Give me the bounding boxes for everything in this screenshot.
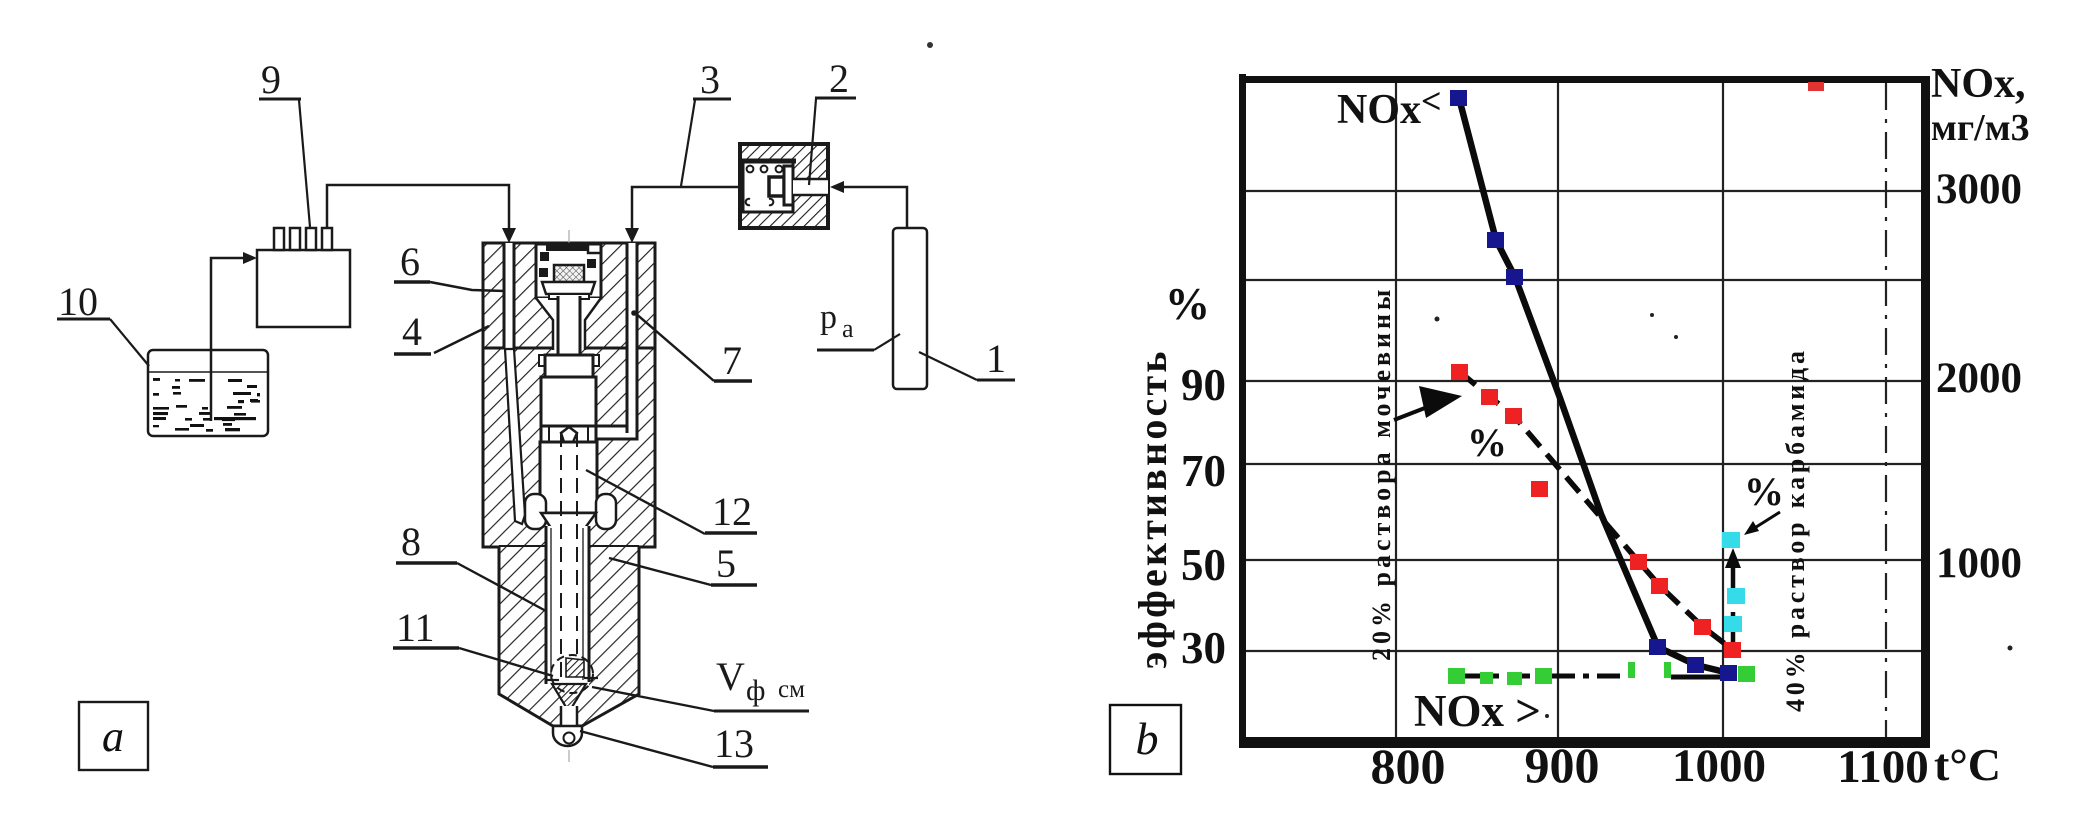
- solenoid bolt 3: [539, 268, 548, 277]
- svg-text:20% раствора мочевины: 20% раствора мочевины: [1367, 286, 1396, 661]
- svg-text:ф: ф: [746, 674, 765, 707]
- valve 2 bottom marks: [746, 199, 774, 205]
- nozzle nub: [553, 726, 582, 746]
- arrow into unit 9: [243, 252, 257, 264]
- green squares: [1448, 662, 1755, 685]
- svg-text:a: a: [842, 314, 854, 343]
- svg-text:11: 11: [396, 605, 435, 650]
- plot border left: [1239, 74, 1246, 748]
- label 6: [400, 239, 420, 284]
- svg-text:90: 90: [1181, 360, 1226, 410]
- panel letter a box: [79, 702, 148, 770]
- svg-text:13: 13: [714, 721, 754, 766]
- unit 9 pin 2: [290, 228, 300, 250]
- funnel below cavity: [536, 298, 601, 350]
- curve efficiency dashed: [1460, 372, 1733, 650]
- mixing volume dashed ellipse: [551, 655, 593, 693]
- leader 11: [459, 648, 553, 676]
- valve 2 top bar: [743, 159, 796, 164]
- valve 2 chamber: [743, 160, 793, 212]
- leader 10: [110, 319, 149, 366]
- tank 10: [148, 350, 268, 436]
- svg-text:12: 12: [712, 489, 752, 534]
- label 9: [261, 57, 281, 102]
- svg-text:10: 10: [58, 279, 98, 324]
- wire cylinder to valve 2: [836, 187, 907, 228]
- leader 3: [681, 100, 695, 186]
- svg-text:8: 8: [401, 519, 421, 564]
- urea label arrow: [1394, 406, 1430, 420]
- cyan squares: [1722, 532, 1745, 632]
- leader 2: [809, 99, 816, 185]
- solenoid top bar: [546, 245, 588, 251]
- leader 6: [430, 282, 505, 291]
- pipe tank to unit 9: [211, 258, 245, 421]
- valve 2 outlet port: [793, 179, 828, 195]
- svg-text:1000: 1000: [1936, 540, 2022, 587]
- right channel elbow: [597, 426, 637, 439]
- valve 2 port circles: [747, 166, 754, 173]
- label 11: [396, 605, 435, 650]
- grid horizontal 2500: [1246, 279, 1921, 281]
- svg-text:эффективность: эффективность: [1130, 348, 1175, 669]
- valve ball pentagon: [561, 427, 577, 442]
- svg-text:NOx >: NOx >: [1414, 686, 1541, 736]
- leader 4: [434, 326, 489, 353]
- grid horizontal 70: [1246, 463, 1921, 465]
- label 12: [712, 489, 752, 534]
- electronic unit 9 box: [257, 250, 350, 327]
- leader 13: [580, 731, 713, 767]
- svg-text:3: 3: [700, 57, 720, 102]
- solenoid cavity: [536, 244, 601, 298]
- valve band: [541, 426, 596, 442]
- tank liquid: [153, 378, 260, 432]
- label 13: [714, 721, 754, 766]
- svg-text:%: %: [1467, 420, 1507, 465]
- svg-text:мг/м3: мг/м3: [1931, 107, 2030, 149]
- grid vertical 800: [1395, 83, 1397, 737]
- solenoid right step: [588, 245, 601, 253]
- grid horizontal 90/2000: [1246, 380, 1921, 382]
- panel letter b box: [1110, 705, 1181, 774]
- svg-text:2: 2: [829, 56, 849, 101]
- spring seat lobe right: [596, 494, 616, 529]
- svg-text:50: 50: [1181, 540, 1226, 590]
- percent arrow right: [1753, 512, 1780, 529]
- left drain channel slanted: [505, 349, 525, 524]
- valve 2 body: [740, 144, 828, 228]
- specks: [1435, 317, 1440, 322]
- svg-text:t°C: t°C: [1934, 739, 2001, 790]
- leader pa: [874, 334, 900, 350]
- svg-text:3000: 3000: [1936, 166, 2022, 213]
- leader V: [592, 687, 714, 711]
- needle neck: [541, 513, 596, 528]
- grid vertical 1100 dashed: [1885, 83, 1887, 737]
- grid horizontal 3000: [1246, 190, 1921, 192]
- leader 8: [457, 563, 546, 611]
- unit 9 pin 3: [306, 228, 316, 250]
- armature flange: [542, 282, 595, 294]
- x labels: [1371, 737, 1929, 794]
- svg-text:1100: 1100: [1837, 741, 1928, 793]
- baseline NOx-greater solid: [1671, 675, 1726, 680]
- leader 7: [634, 312, 714, 381]
- red squares: [1451, 364, 1741, 658]
- gas cylinder 1: [893, 228, 927, 389]
- leader 1: [919, 352, 977, 380]
- svg-text:6: 6: [400, 239, 420, 284]
- svg-text:30: 30: [1181, 623, 1226, 673]
- nub drop: [564, 733, 575, 744]
- leader 9: [299, 100, 310, 227]
- svg-text:800: 800: [1371, 738, 1446, 794]
- wire unit9 to injector left: [327, 185, 509, 229]
- svg-text:см: см: [778, 676, 805, 703]
- svg-text:5: 5: [716, 541, 736, 586]
- left feed channel: [504, 243, 514, 349]
- svg-text:NOx,: NOx,: [1931, 61, 2026, 107]
- svg-text:b: b: [1136, 713, 1159, 764]
- svg-text:7: 7: [722, 338, 742, 383]
- svg-text:a: a: [102, 712, 124, 761]
- svg-text:900: 900: [1525, 737, 1600, 793]
- injector outer body hatched: [483, 243, 655, 726]
- svg-text:V: V: [716, 654, 745, 699]
- y labels left: [1165, 279, 1226, 673]
- label 10: [58, 279, 98, 324]
- label V mix volume: [716, 654, 805, 707]
- piston body: [541, 377, 596, 426]
- svg-text:4: 4: [402, 309, 422, 354]
- arrow into left channel: [502, 228, 516, 243]
- baseline NOx-greater dashed: [1462, 674, 1627, 679]
- label 8: [401, 519, 421, 564]
- label 3: [700, 57, 720, 102]
- label pa: [820, 299, 854, 343]
- svg-text:1000: 1000: [1672, 740, 1766, 792]
- blue squares: [1450, 90, 1737, 681]
- svg-text:%: %: [1744, 469, 1784, 514]
- svg-text:2000: 2000: [1936, 355, 2022, 402]
- spring chamber: [540, 442, 597, 513]
- valve 2 plunger: [784, 166, 793, 205]
- curve NOx-less solid: [1459, 98, 1729, 673]
- plot border top: [1239, 76, 1922, 83]
- right feed channel: [627, 243, 637, 433]
- unit 9 pin 4: [322, 228, 332, 250]
- leader 12: [586, 470, 705, 534]
- label 4: [402, 309, 422, 354]
- valve stem: [558, 296, 580, 356]
- label 1: [986, 336, 1006, 381]
- speck: [927, 42, 933, 48]
- body split line lower: [499, 545, 639, 547]
- arrow into valve 2: [830, 181, 844, 193]
- plot border right: [1921, 76, 1930, 748]
- grid horizontal 50/1000: [1246, 559, 1921, 561]
- valve 2 spool block: [769, 177, 784, 196]
- label 7: [722, 338, 742, 383]
- armature base plate: [549, 294, 589, 299]
- unit 9 pin 1: [274, 228, 284, 250]
- svg-text:70: 70: [1181, 446, 1226, 496]
- y labels right: [1936, 166, 2022, 587]
- wire valve2 to injector right: [632, 187, 740, 229]
- solenoid bolt 2: [587, 259, 596, 268]
- centerline: [568, 230, 570, 762]
- body split line upper: [483, 347, 655, 350]
- grid vertical 1000: [1722, 83, 1724, 737]
- svg-text:40% раствор карбамида: 40% раствор карбамида: [1781, 347, 1810, 712]
- needle rod: [546, 526, 589, 686]
- label 2: [829, 56, 849, 101]
- needle cone hatched: [566, 658, 584, 677]
- plot border bottom: [1239, 737, 1930, 748]
- cyan up-arrow: [1731, 562, 1736, 650]
- grid vertical 900: [1557, 83, 1559, 737]
- svg-text:p: p: [820, 299, 837, 336]
- piston top: [539, 355, 599, 377]
- solenoid bolt 1: [540, 252, 549, 261]
- leader 5: [609, 558, 711, 585]
- grid horizontal 30: [1246, 650, 1921, 652]
- tank rim line: [149, 371, 267, 373]
- svg-text:%: %: [1165, 279, 1210, 329]
- seat steps: [546, 679, 559, 681]
- svg-text:1: 1: [986, 336, 1006, 381]
- nozzle tip cylinder: [561, 706, 577, 728]
- svg-text:9: 9: [261, 57, 281, 102]
- armature crosshatched: [554, 265, 584, 282]
- spring seat lobe left: [525, 494, 546, 529]
- needle dashed centerlines: [560, 432, 562, 700]
- red artifact dash: [1808, 82, 1824, 91]
- arrow into right channel: [625, 228, 639, 243]
- label 5: [716, 541, 736, 586]
